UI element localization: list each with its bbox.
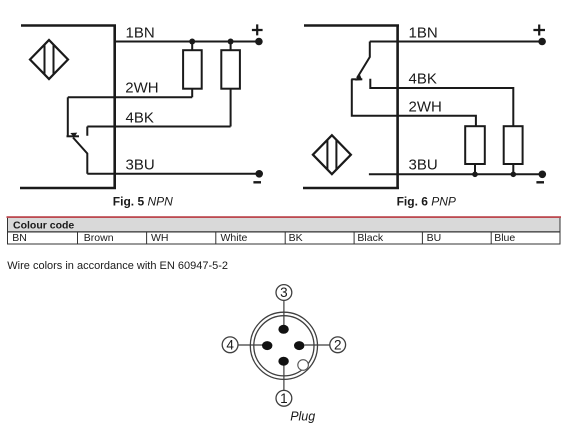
svg-text:Plug: Plug	[290, 410, 315, 424]
svg-text:4BK: 4BK	[126, 109, 154, 126]
svg-text:Colour code: Colour code	[13, 219, 74, 231]
svg-text:Black: Black	[357, 232, 383, 244]
svg-text:WH: WH	[151, 232, 169, 244]
svg-text:4BK: 4BK	[409, 70, 437, 87]
svg-text:3BU: 3BU	[409, 157, 438, 174]
svg-text:Fig. 6 PNP: Fig. 6 PNP	[397, 195, 456, 209]
svg-text:Brown: Brown	[84, 232, 114, 244]
svg-text:1: 1	[280, 391, 288, 406]
svg-text:Blue: Blue	[494, 232, 515, 244]
svg-text:BK: BK	[289, 232, 303, 244]
svg-text:1BN: 1BN	[409, 24, 438, 41]
svg-text:BU: BU	[427, 232, 442, 244]
svg-text:2WH: 2WH	[125, 80, 158, 97]
svg-text:2WH: 2WH	[409, 98, 442, 115]
svg-text:3: 3	[280, 285, 288, 300]
svg-text:3BU: 3BU	[126, 157, 155, 174]
svg-text:Fig. 5 NPN: Fig. 5 NPN	[113, 195, 173, 209]
svg-text:4: 4	[226, 338, 234, 353]
svg-text:Wire colors in accordance with: Wire colors in accordance with EN 60947-…	[7, 260, 228, 272]
svg-text:1BN: 1BN	[126, 24, 155, 41]
svg-text:BN: BN	[12, 232, 27, 244]
svg-text:2: 2	[334, 338, 342, 353]
svg-text:White: White	[221, 232, 248, 244]
